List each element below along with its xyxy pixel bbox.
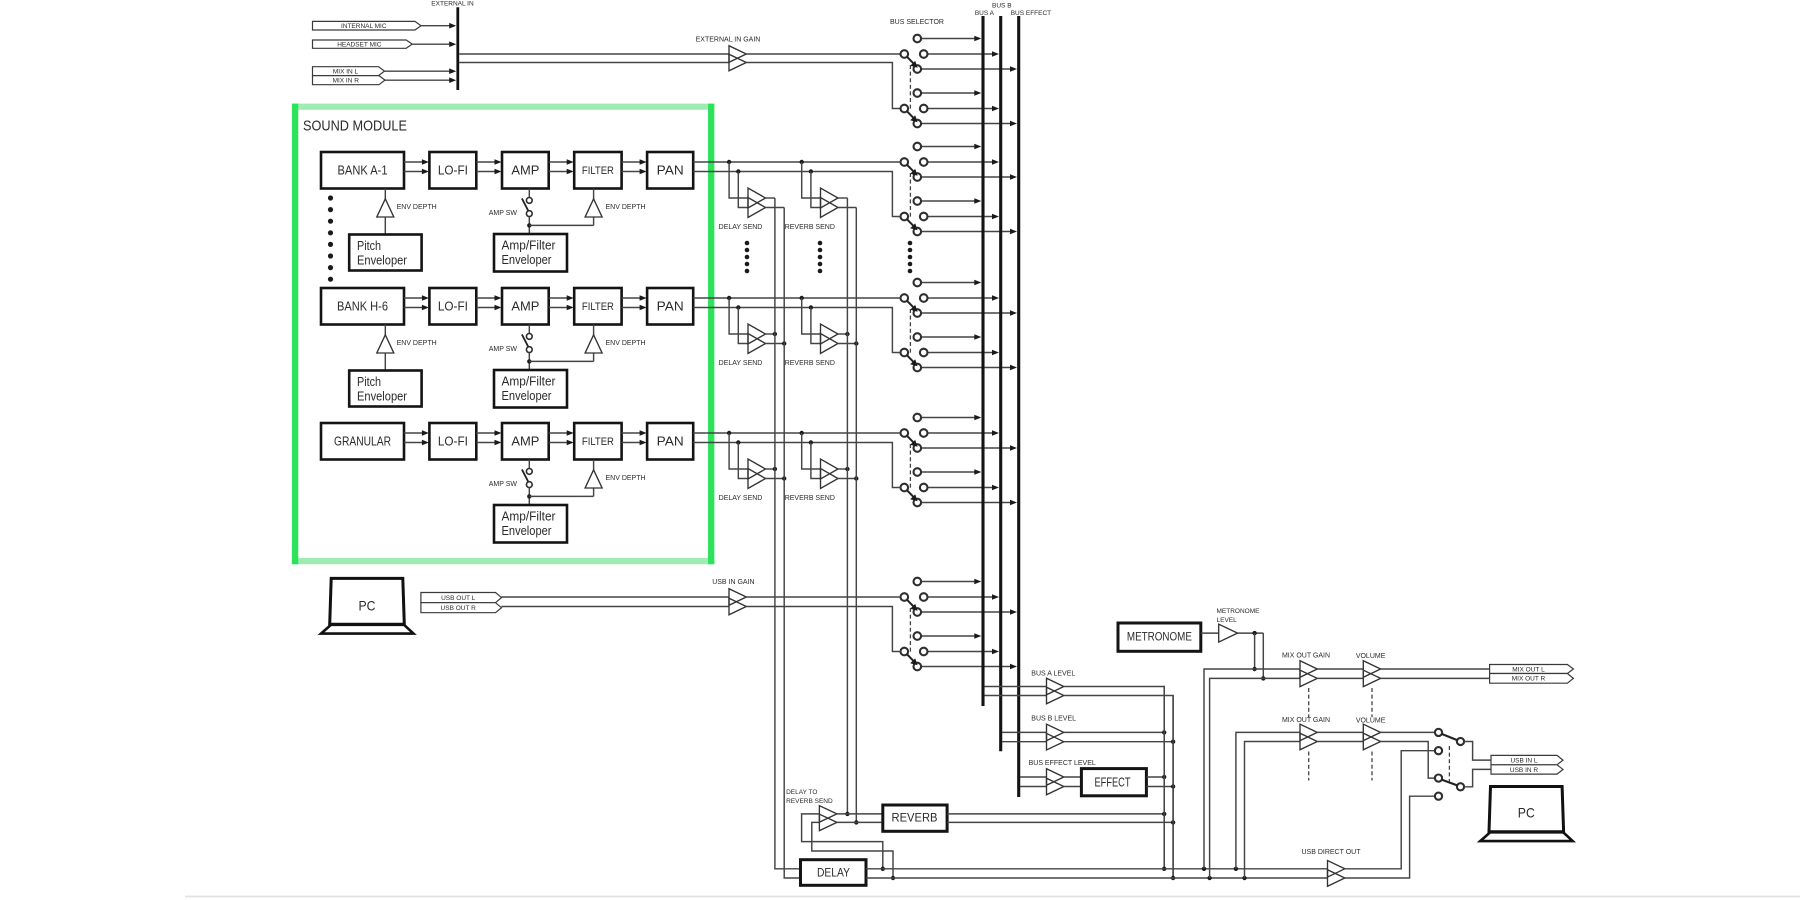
wire mix2 gain to volume R bbox=[1317, 741, 1363, 743]
wire gain R to bus selector 1 bbox=[746, 63, 900, 109]
wire amp sw to enveloper bbox=[528, 217, 530, 234]
wire usb switch R to tag bbox=[1464, 769, 1491, 786]
junction reverb send tap R bbox=[809, 305, 813, 309]
svg-text:VOLUME: VOLUME bbox=[1356, 653, 1386, 660]
junction delay send tap L bbox=[727, 160, 731, 164]
switch sample-row-3 R throw BUS B bbox=[928, 487, 993, 489]
wire EFFECT out L bbox=[1146, 776, 1164, 778]
switch usb-in L common bbox=[1457, 738, 1464, 745]
switch usb-in L throw BUS EFFECT bbox=[921, 611, 1010, 613]
wire usb gain L to selector bbox=[746, 596, 900, 598]
switch sample-row-1 L throw BUS B bbox=[928, 161, 993, 163]
junction amp/filter env bbox=[527, 359, 531, 363]
svg-text:BUS A LEVEL: BUS A LEVEL bbox=[1031, 670, 1075, 677]
device PC (right laptop) bbox=[1489, 787, 1564, 832]
svg-text:BUS B: BUS B bbox=[992, 3, 1012, 10]
switch external-in R throw BUS EFFECT bbox=[921, 123, 1010, 125]
switch sample-row-2 L throw BUS B bbox=[928, 297, 993, 299]
wire mix1 riser R bbox=[1210, 678, 1300, 878]
gang dashed volume 2 bbox=[1371, 752, 1373, 781]
switch usb-in R contact direct bbox=[1435, 793, 1442, 800]
svg-text:DELAY SEND: DELAY SEND bbox=[719, 360, 763, 367]
svg-text:BUS SELECTOR: BUS SELECTOR bbox=[890, 19, 944, 26]
box LO-FI bbox=[429, 423, 476, 460]
svg-text:EXTERNAL IN: EXTERNAL IN bbox=[431, 1, 474, 8]
box Pitch Enveloper bbox=[349, 371, 421, 407]
wire MIX IN L to EXTERNAL IN bus bbox=[385, 70, 450, 72]
wire MIX IN R to EXTERNAL IN bus bbox=[385, 79, 450, 81]
switch sample-row-3 L throw BUS B bbox=[928, 432, 993, 434]
input tag MIX IN R bbox=[313, 76, 386, 85]
bus line BUS A bbox=[981, 16, 984, 706]
junction reverb send tap L bbox=[800, 160, 804, 164]
wire delay tap R bbox=[738, 443, 748, 479]
sound module green frame bbox=[292, 104, 714, 110]
svg-text:EXTERNAL IN GAIN: EXTERNAL IN GAIN bbox=[696, 37, 761, 44]
svg-text:INTERNAL MIC: INTERNAL MIC bbox=[341, 23, 387, 30]
switch usb-in R common contact bbox=[901, 648, 909, 656]
ellipsis delay send bbox=[745, 241, 750, 246]
box BANK A-1 bbox=[321, 152, 404, 189]
output tag USB OUT R bbox=[421, 603, 502, 613]
svg-text:LO-FI: LO-FI bbox=[438, 434, 468, 449]
page bottom edge bbox=[185, 896, 1800, 898]
svg-text:AMP SW: AMP SW bbox=[489, 346, 518, 353]
wire env to filter depth bbox=[529, 495, 593, 497]
wire external R to gain bbox=[459, 62, 729, 64]
junction risers on bottom lines bbox=[1202, 867, 1206, 871]
svg-text:ENV DEPTH: ENV DEPTH bbox=[397, 204, 437, 211]
switch sample-row-1 R arm bbox=[907, 219, 914, 226]
switch usb-in R throw BUS A bbox=[921, 635, 975, 637]
svg-text:PC: PC bbox=[1518, 805, 1535, 821]
wire metronome to mix R bbox=[1262, 633, 1264, 678]
wire stereo arrows bbox=[622, 161, 642, 163]
switch usb-in L common contact bbox=[901, 593, 909, 601]
wire gain L to bus selector 1 bbox=[746, 53, 900, 55]
svg-text:REVERB SEND: REVERB SEND bbox=[786, 798, 833, 805]
box AMP bbox=[502, 423, 549, 460]
wire mix2 riser R bbox=[1245, 742, 1301, 879]
wire stereo arrows bbox=[549, 432, 569, 434]
junction reverb send tap L bbox=[800, 296, 804, 300]
switch sample-row-3 L arm bbox=[907, 436, 914, 443]
wire metronome to level bbox=[1201, 632, 1219, 634]
junction reverb send tap R bbox=[809, 440, 813, 444]
wire delay send R out bbox=[766, 207, 785, 209]
wire usb switch L to tag bbox=[1464, 742, 1491, 761]
svg-text:MIX IN R: MIX IN R bbox=[333, 77, 360, 84]
wire delay tap R bbox=[738, 172, 748, 208]
switch sample-row-3 R throw BUS A bbox=[921, 471, 975, 473]
wire reverb send L out bbox=[838, 333, 847, 335]
svg-text:PAN: PAN bbox=[657, 299, 684, 314]
svg-text:USB IN L: USB IN L bbox=[1510, 757, 1537, 764]
wire PAN out R bbox=[693, 443, 900, 488]
wire bus b level L out bbox=[1064, 731, 1164, 733]
wire reverb bus R vertical bbox=[855, 208, 857, 823]
box PAN bbox=[647, 423, 693, 460]
svg-text:AMP SW: AMP SW bbox=[489, 481, 518, 488]
junction delay send tap L bbox=[727, 296, 731, 300]
switch sample-row-2 R throw BUS EFFECT bbox=[921, 367, 1010, 369]
switch external-in L throw BUS B bbox=[928, 53, 993, 55]
svg-text:EFFECT: EFFECT bbox=[1095, 775, 1131, 790]
switch sample-row-2 R arm bbox=[907, 355, 914, 362]
node EXTERNAL IN bus bbox=[456, 7, 459, 90]
svg-text:ENV DEPTH: ENV DEPTH bbox=[606, 475, 646, 482]
switch usb-in gang dashed link bbox=[909, 608, 911, 653]
switch usb-in L throw BUS A bbox=[921, 581, 975, 583]
wire metronome level out bbox=[1238, 632, 1264, 634]
wire stereo arrows bbox=[404, 161, 423, 163]
svg-text:USB DIRECT OUT: USB DIRECT OUT bbox=[1302, 849, 1362, 856]
svg-text:METRONOME: METRONOME bbox=[1127, 630, 1192, 644]
svg-text:USB OUT L: USB OUT L bbox=[441, 595, 476, 602]
switch sample-row-1 L throw BUS EFFECT bbox=[921, 176, 1010, 178]
wire BUS B to level L bbox=[1002, 731, 1047, 733]
switch sample-row-3 L common contact bbox=[901, 429, 909, 437]
bus line BUS B bbox=[999, 16, 1002, 751]
amp BUS EFFECT LEVEL bbox=[1047, 769, 1064, 786]
wire reverb bus L vertical bbox=[846, 198, 848, 814]
switch usb-in L contact direct bbox=[1435, 747, 1442, 754]
box Amp/Filter Enveloper bbox=[494, 370, 567, 408]
wire usb direct out R to switch bbox=[1345, 796, 1435, 878]
wire mix bottom R bbox=[866, 877, 1328, 879]
svg-text:ENV DEPTH: ENV DEPTH bbox=[606, 340, 646, 347]
wire usb out R bbox=[502, 606, 730, 608]
svg-text:Enveloper: Enveloper bbox=[502, 524, 552, 538]
svg-text:Enveloper: Enveloper bbox=[502, 389, 552, 403]
wire delay send R out bbox=[766, 343, 785, 345]
wire PAN out R bbox=[693, 308, 900, 353]
svg-text:Enveloper: Enveloper bbox=[502, 253, 552, 267]
wire mix1 riser L bbox=[1204, 669, 1300, 869]
switch usb-in L arm bbox=[1442, 734, 1458, 740]
box PAN bbox=[647, 288, 693, 325]
amp USB DIRECT OUT bbox=[1328, 861, 1345, 878]
switch external-in R throw BUS A bbox=[921, 92, 975, 94]
wire mix1 gain to volume R bbox=[1317, 677, 1363, 679]
switch usb-in R arm bbox=[907, 654, 914, 661]
svg-text:Enveloper: Enveloper bbox=[357, 254, 407, 268]
amp ENV DEPTH (filter) bbox=[593, 325, 595, 335]
amp REVERB SEND bbox=[821, 459, 839, 479]
switch usb-in L contact volume bbox=[1435, 729, 1442, 736]
switch sample-row-1 L throw BUS A bbox=[921, 146, 975, 148]
input tag HEADSET MIC bbox=[313, 40, 413, 48]
switch sample-row-3 L throw BUS EFFECT bbox=[921, 447, 1010, 449]
wire metronome to mix L bbox=[1254, 633, 1256, 669]
wire reverb send R out bbox=[838, 478, 856, 480]
wire stereo arrows bbox=[549, 161, 569, 163]
wire EFFECT out R bbox=[1146, 786, 1173, 788]
svg-text:DELAY TO: DELAY TO bbox=[786, 789, 817, 796]
wire stereo arrows bbox=[476, 297, 496, 299]
switch sample-row-3 R common contact bbox=[901, 484, 909, 492]
switch external-in R arm bbox=[907, 111, 914, 118]
switch usb-in L throw BUS B bbox=[928, 596, 993, 598]
svg-text:MIX OUT L: MIX OUT L bbox=[1512, 666, 1545, 673]
switch sample-row-3 L throw BUS A bbox=[921, 417, 975, 419]
svg-text:Amp/Filter: Amp/Filter bbox=[502, 239, 556, 253]
svg-text:HEADSET MIC: HEADSET MIC bbox=[337, 41, 382, 48]
wire stereo arrows bbox=[622, 297, 642, 299]
amp ENV DEPTH (pitch) bbox=[384, 325, 386, 335]
wire reverb tap R bbox=[811, 308, 821, 344]
svg-text:BUS EFFECT: BUS EFFECT bbox=[1011, 10, 1051, 17]
output tag USB OUT L bbox=[421, 593, 502, 603]
amp REVERB SEND bbox=[821, 324, 839, 344]
amp DELAY SEND bbox=[748, 188, 766, 208]
svg-text:VOLUME: VOLUME bbox=[1356, 717, 1386, 724]
box FILTER bbox=[574, 152, 621, 189]
wire stereo arrows bbox=[476, 432, 496, 434]
wire BUS A to level R bbox=[985, 695, 1047, 697]
wire env to filter depth bbox=[529, 224, 593, 226]
svg-text:LEVEL: LEVEL bbox=[1217, 617, 1238, 624]
wire dtrs input L bbox=[802, 814, 883, 869]
svg-text:BANK A-1: BANK A-1 bbox=[338, 163, 388, 178]
svg-text:DELAY: DELAY bbox=[817, 865, 850, 879]
box REVERB bbox=[883, 805, 947, 831]
wire bus a level L out bbox=[1064, 687, 1164, 869]
box LO-FI bbox=[429, 152, 476, 189]
amp ENV DEPTH (filter) bbox=[593, 460, 595, 470]
switch external-in R throw BUS B bbox=[928, 108, 993, 110]
junction reverb send tap R bbox=[809, 169, 813, 173]
junction delay send tap R bbox=[736, 169, 740, 173]
ellipsis banks bbox=[328, 195, 333, 200]
switch external-in L throw BUS A bbox=[921, 38, 975, 40]
switch sample-row-2 R throw BUS A bbox=[921, 336, 975, 338]
wire dtrs input R bbox=[812, 822, 893, 878]
svg-text:USB IN R: USB IN R bbox=[1510, 767, 1538, 774]
wire pitch enveloper to env depth bbox=[384, 353, 386, 371]
svg-text:PAN: PAN bbox=[657, 434, 684, 449]
svg-text:BUS EFFECT LEVEL: BUS EFFECT LEVEL bbox=[1029, 760, 1096, 767]
wire delay send L out bbox=[766, 333, 775, 335]
output tag MIX OUT R bbox=[1490, 674, 1574, 684]
wire PAN out L bbox=[693, 161, 900, 163]
svg-text:ENV DEPTH: ENV DEPTH bbox=[397, 340, 437, 347]
switch usb-in R common bbox=[1457, 783, 1464, 790]
svg-text:FILTER: FILTER bbox=[582, 301, 614, 313]
wire env to filter depth bbox=[529, 360, 593, 362]
switch external-in gang dashed link bbox=[909, 65, 911, 110]
amp ENV DEPTH (pitch) bbox=[384, 189, 386, 199]
wire delay send R out bbox=[766, 478, 785, 480]
switch external-in L arm bbox=[907, 57, 914, 64]
switch AMP SW bbox=[528, 460, 530, 469]
svg-text:USB IN GAIN: USB IN GAIN bbox=[712, 579, 754, 586]
svg-text:FILTER: FILTER bbox=[582, 165, 614, 177]
junction metronome split bbox=[1252, 631, 1256, 635]
svg-text:MIX OUT GAIN: MIX OUT GAIN bbox=[1282, 717, 1330, 724]
switch sample-row-2 R common contact bbox=[901, 349, 909, 357]
switch AMP SW bbox=[528, 325, 530, 334]
box Amp/Filter Enveloper bbox=[494, 234, 567, 272]
gang dashed mix out gain 1 bbox=[1308, 688, 1310, 717]
box EFFECT bbox=[1081, 769, 1146, 796]
junction delay send tap R bbox=[736, 440, 740, 444]
svg-text:Amp/Filter: Amp/Filter bbox=[502, 375, 556, 389]
switch sample-row-3 R throw BUS EFFECT bbox=[921, 502, 1010, 504]
input tag INTERNAL MIC bbox=[313, 21, 422, 30]
box GRANULAR bbox=[321, 423, 404, 460]
wire mix2 volume L to switch bbox=[1381, 731, 1435, 733]
amp BUS B LEVEL bbox=[1047, 724, 1064, 741]
switch sample-row-3 R arm bbox=[907, 490, 914, 497]
wire mix bottom L bbox=[866, 868, 1328, 870]
wire mix1 to MIX OUT R bbox=[1381, 677, 1490, 679]
box Amp/Filter Enveloper bbox=[494, 505, 567, 543]
wire reverb tap L bbox=[802, 433, 821, 469]
svg-text:MIX IN L: MIX IN L bbox=[333, 68, 359, 75]
wire HEADSET MIC to EXTERNAL IN bus bbox=[412, 43, 450, 45]
wire stereo arrows bbox=[404, 432, 423, 434]
switch sample-row-2 L throw BUS EFFECT bbox=[921, 312, 1010, 314]
junction reverb bus L bbox=[845, 812, 849, 816]
svg-text:REVERB SEND: REVERB SEND bbox=[785, 224, 835, 231]
wire mix1 gain to volume L bbox=[1317, 668, 1363, 670]
gang dashed mix out gain 2 bbox=[1308, 752, 1310, 781]
svg-text:LO-FI: LO-FI bbox=[438, 163, 468, 178]
wire reverb send R out bbox=[838, 343, 856, 345]
switch usb-in gang dashed bbox=[1448, 746, 1450, 782]
ellipsis bus selector bbox=[908, 241, 913, 246]
svg-text:SOUND MODULE: SOUND MODULE bbox=[303, 118, 407, 135]
wire delay send L out bbox=[766, 197, 775, 199]
wire dtrs R out to REVERB bbox=[837, 821, 883, 823]
junction amp/filter env bbox=[527, 494, 531, 498]
wire mix1 to MIX OUT L bbox=[1381, 668, 1490, 670]
svg-text:AMP: AMP bbox=[511, 434, 539, 449]
svg-text:GRANULAR: GRANULAR bbox=[334, 434, 391, 449]
output tag USB IN R bbox=[1491, 765, 1563, 774]
wire mix2 gain to volume L bbox=[1317, 731, 1363, 733]
svg-text:Pitch: Pitch bbox=[357, 375, 381, 389]
wire stereo arrows bbox=[404, 297, 423, 299]
wire reverb send R out bbox=[838, 207, 856, 209]
box FILTER bbox=[574, 423, 621, 460]
wire delay tap L bbox=[729, 162, 748, 198]
switch sample-row-2 L throw BUS A bbox=[921, 282, 975, 284]
junction amp/filter env bbox=[527, 223, 531, 227]
junction delay send tap R bbox=[736, 305, 740, 309]
switch sample-row-3 gang dashed link bbox=[909, 444, 911, 489]
switch sample-row-1 gang dashed link bbox=[909, 173, 911, 218]
amp DELAY TO REVERB SEND bbox=[819, 806, 837, 823]
svg-text:DELAY SEND: DELAY SEND bbox=[719, 224, 763, 231]
wire dtrs L out to REVERB bbox=[837, 813, 883, 815]
device PC (left laptop) bbox=[330, 578, 405, 624]
amp REVERB SEND bbox=[821, 188, 839, 208]
amp ENV DEPTH (filter) bbox=[593, 189, 595, 199]
box PAN bbox=[647, 152, 693, 189]
switch external-in R common contact bbox=[901, 105, 909, 113]
wire mix2 volume R to switch bbox=[1381, 742, 1435, 779]
wire INTERNAL MIC to EXTERNAL IN bus bbox=[421, 25, 450, 27]
svg-text:AMP: AMP bbox=[511, 299, 539, 314]
svg-text:DELAY SEND: DELAY SEND bbox=[719, 495, 763, 502]
switch sample-row-2 gang dashed link bbox=[909, 309, 911, 354]
wire usb out L bbox=[502, 596, 730, 598]
wire amp sw to enveloper bbox=[528, 488, 530, 505]
amp BUS A LEVEL bbox=[1047, 678, 1064, 695]
switch AMP SW bbox=[528, 189, 530, 198]
wire stereo arrows bbox=[476, 161, 496, 163]
wire delay send L out bbox=[766, 468, 775, 470]
amp MIX OUT GAIN 2 bbox=[1300, 724, 1317, 741]
wire delay tap L bbox=[729, 298, 748, 334]
wire pitch enveloper to env depth bbox=[384, 217, 386, 235]
svg-text:REVERB: REVERB bbox=[892, 811, 938, 825]
svg-text:REVERB SEND: REVERB SEND bbox=[785, 495, 835, 502]
wire BUS EFFECT to level L bbox=[1020, 776, 1047, 778]
svg-text:FILTER: FILTER bbox=[582, 436, 614, 448]
amp VOLUME 2 bbox=[1363, 724, 1380, 741]
gang dashed volume 1 bbox=[1371, 688, 1373, 717]
amp METRONOME LEVEL bbox=[1219, 624, 1238, 642]
wire reverb send L out bbox=[838, 197, 847, 199]
wire stereo arrows bbox=[549, 297, 569, 299]
svg-text:REVERB SEND: REVERB SEND bbox=[785, 360, 835, 367]
box METRONOME bbox=[1118, 623, 1201, 651]
svg-text:METRONOME: METRONOME bbox=[1217, 608, 1261, 615]
junction delay send tap L bbox=[727, 431, 731, 435]
wire REVERB out L bbox=[947, 813, 1164, 815]
wire BUS EFFECT to level R bbox=[1020, 786, 1047, 788]
ellipsis reverb send bbox=[818, 241, 823, 246]
wire usb gain R to selector bbox=[746, 607, 900, 652]
wire bus effect level to EFFECT bbox=[1064, 776, 1082, 778]
switch sample-row-2 L common contact bbox=[901, 294, 909, 302]
svg-text:Amp/Filter: Amp/Filter bbox=[502, 510, 556, 524]
svg-text:Pitch: Pitch bbox=[357, 239, 381, 253]
svg-text:Enveloper: Enveloper bbox=[357, 390, 407, 404]
wire delay bus R vertical bbox=[784, 208, 800, 879]
amp USB IN GAIN bbox=[729, 589, 746, 606]
switch sample-row-1 L common contact bbox=[901, 158, 909, 166]
svg-text:ENV DEPTH: ENV DEPTH bbox=[606, 204, 646, 211]
wire PAN out R bbox=[693, 172, 900, 217]
switch usb-in R throw BUS EFFECT bbox=[921, 666, 1010, 668]
wire mix collector R vertical bbox=[1172, 696, 1174, 879]
switch usb-in R throw BUS B bbox=[928, 651, 993, 653]
wire mix2 riser L bbox=[1236, 732, 1300, 868]
wire delay tap R bbox=[738, 308, 748, 344]
wire external L to gain bbox=[459, 53, 729, 55]
wire REVERB out R bbox=[947, 821, 1173, 823]
wire reverb tap L bbox=[802, 162, 821, 198]
amp DELAY SEND bbox=[748, 459, 766, 479]
wire PAN out L bbox=[693, 432, 900, 434]
svg-text:PC: PC bbox=[359, 598, 376, 614]
svg-text:MIX OUT R: MIX OUT R bbox=[1512, 676, 1546, 683]
wire delay tap L bbox=[729, 433, 748, 469]
wire PAN out L bbox=[693, 297, 900, 299]
switch usb-in R arm bbox=[1442, 780, 1458, 786]
bus line BUS EFFECT bbox=[1017, 16, 1020, 797]
switch sample-row-1 R common contact bbox=[901, 213, 909, 221]
output tag USB IN L bbox=[1491, 755, 1563, 764]
wire amp sw to enveloper bbox=[528, 353, 530, 370]
switch external-in L throw BUS EFFECT bbox=[921, 68, 1010, 70]
wire bus a level R out bbox=[1064, 696, 1173, 879]
amp VOLUME 1 bbox=[1363, 661, 1380, 678]
